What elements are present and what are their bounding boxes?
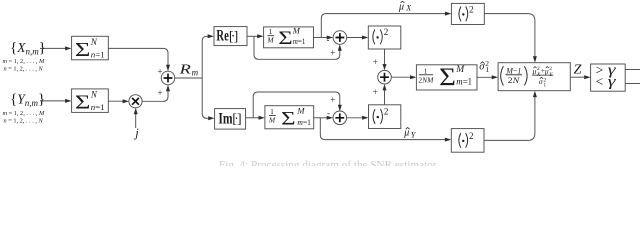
arrowhead into top-right square box xyxy=(445,12,451,16)
arrowhead into adder A2 left xyxy=(327,36,333,40)
box ratio xyxy=(498,63,570,91)
svg-text:Σ: Σ xyxy=(75,91,91,113)
adder A2 xyxy=(333,31,347,45)
arrowhead into top mean box xyxy=(257,34,263,38)
wire mu_X branch up and right xyxy=(321,14,447,38)
wire Re direct path to adder A2 xyxy=(254,36,340,59)
svg-text:m: m xyxy=(192,68,199,78)
svg-text:m=1: m=1 xyxy=(293,37,306,46)
multiplier M1 cross xyxy=(132,98,139,105)
arrowhead into threshold box xyxy=(584,75,590,79)
svg-text:n = 1, 2, . . . , N: n = 1, 2, . . . , N xyxy=(4,66,44,73)
box square bottom xyxy=(369,105,401,129)
svg-text:+: + xyxy=(330,47,335,57)
wire branch up to Re box xyxy=(202,36,209,78)
svg-text:+: + xyxy=(373,87,378,97)
wire Re box to mean box xyxy=(247,35,259,37)
box Re xyxy=(214,27,247,46)
svg-text:-: - xyxy=(327,35,330,45)
multiplier M1 xyxy=(129,95,142,108)
arrowhead into adder A3 bottom xyxy=(383,84,387,90)
box sum N bottom xyxy=(72,89,109,113)
svg-text:{Xn,m}: {Xn,m} xyxy=(10,40,46,57)
arrowhead into adder A4 top xyxy=(338,105,342,111)
arrowhead into Im box xyxy=(208,116,214,120)
svg-text:R: R xyxy=(178,62,191,77)
arrowhead into bottom sum box xyxy=(65,99,71,103)
svg-text:Σ: Σ xyxy=(439,64,456,91)
wire branch down to Im box xyxy=(202,78,210,118)
svg-text:m = 1, 2, . . . , M: m = 1, 2, . . . , M xyxy=(3,110,45,117)
wire X label to sum box xyxy=(40,47,67,49)
svg-text:+: + xyxy=(330,95,335,105)
svg-text:Z: Z xyxy=(574,62,582,77)
svg-text:{Yn,m}: {Yn,m} xyxy=(10,91,45,108)
square bottom content xyxy=(373,109,382,124)
arrowhead into top square box xyxy=(362,36,368,40)
svg-text:1: 1 xyxy=(424,66,428,75)
svg-text:+: + xyxy=(158,66,163,76)
adder A1 xyxy=(161,71,175,85)
box square bottom-right xyxy=(451,129,484,153)
svg-text:N: N xyxy=(90,37,98,47)
wire top square box down to adder A3 xyxy=(384,49,386,66)
adder A4 xyxy=(333,111,347,125)
svg-text:M: M xyxy=(292,25,301,35)
adder A4 plus xyxy=(335,113,344,122)
ratio box content xyxy=(501,66,504,85)
svg-text:X: X xyxy=(405,4,412,13)
wire top mean box to adder A2 xyxy=(314,37,329,39)
wire mu_Y^2 to ratio box bottom xyxy=(484,95,535,140)
svg-text:M: M xyxy=(455,65,465,75)
svg-text:2: 2 xyxy=(469,131,474,141)
svg-text:1: 1 xyxy=(486,65,490,74)
svg-text:n=1: n=1 xyxy=(91,102,105,112)
wire mu_Y branch down and right xyxy=(320,118,446,140)
box mean top xyxy=(264,27,314,48)
square top-right content xyxy=(459,7,468,22)
wire Y label to sum box xyxy=(40,100,67,102)
box threshold xyxy=(591,64,626,91)
svg-text:Σ: Σ xyxy=(75,39,91,61)
arrowhead into ratio box bottom xyxy=(533,91,537,97)
wire j input to multiplier xyxy=(135,112,137,128)
arrowhead into adder A2 bottom xyxy=(338,44,342,50)
svg-text:[·]: [·] xyxy=(229,29,238,44)
svg-text:Fig. 4: Processing diagram of: Fig. 4: Processing diagram of the SNR es… xyxy=(219,160,439,166)
arrowhead into Re box xyxy=(208,34,214,38)
svg-text:2: 2 xyxy=(384,107,389,117)
svg-text:n=1: n=1 xyxy=(91,49,105,59)
square bottom-right content xyxy=(459,133,468,148)
wire bottom mean box to adder A4 xyxy=(314,117,329,119)
wire threshold output lower xyxy=(625,83,640,85)
arrowhead into multiplier left xyxy=(123,99,129,103)
arrowhead into top sum box xyxy=(65,46,71,50)
svg-text:Σ: Σ xyxy=(281,108,295,129)
wire Im box to mean box xyxy=(246,117,261,119)
arrowhead into bottom-right square box xyxy=(445,138,451,142)
svg-text:j: j xyxy=(133,126,139,140)
svg-text:Im: Im xyxy=(218,111,232,128)
arrowhead into ratio box top xyxy=(533,56,537,62)
wire adder A2 to square box xyxy=(347,37,364,39)
svg-text:2: 2 xyxy=(469,5,474,15)
arrowhead into 1/2NM box xyxy=(410,75,416,79)
svg-text:Σ: Σ xyxy=(278,28,292,49)
svg-text:m=1: m=1 xyxy=(297,118,311,127)
svg-text:2N: 2N xyxy=(508,75,521,85)
svg-text:m = 1, 2, . . . , M: m = 1, 2, . . . , M xyxy=(3,58,45,65)
wire Im direct path to adder A4 xyxy=(253,92,340,118)
box Im xyxy=(215,109,246,130)
svg-text:n = 1, 2, . . . , N: n = 1, 2, . . . , N xyxy=(4,118,44,125)
svg-text:-: - xyxy=(327,108,330,118)
box 1/2NM sum xyxy=(416,65,477,90)
svg-text:Y: Y xyxy=(411,131,417,140)
svg-text:<: < xyxy=(596,74,604,89)
wire bottom sum box to multiplier xyxy=(108,100,124,102)
arrowhead into adder A1 top xyxy=(166,65,170,71)
arrowhead into adder A4 left xyxy=(327,116,333,120)
square top content xyxy=(373,30,382,45)
adder A3 plus xyxy=(380,73,389,82)
svg-text:Re: Re xyxy=(216,28,228,45)
wire ratio box to threshold box Z xyxy=(570,76,586,78)
wire multiplier to adder A1 (up corner) xyxy=(142,89,168,101)
arrowhead into bottom square box xyxy=(362,116,368,120)
box mean bottom xyxy=(265,106,314,129)
adder A3 xyxy=(378,70,392,84)
box square top-right xyxy=(451,3,484,24)
svg-text:+: + xyxy=(373,57,378,67)
svg-text:+: + xyxy=(158,88,163,98)
svg-text:γ: γ xyxy=(608,72,617,89)
adder A1 plus xyxy=(164,74,173,83)
wire adder A4 to square box xyxy=(347,117,364,119)
svg-text:M: M xyxy=(268,115,276,124)
svg-text:2: 2 xyxy=(384,27,389,37)
wire threshold output upper xyxy=(625,69,640,71)
box sum N top xyxy=(72,36,109,60)
arrowhead into bottom mean box xyxy=(259,116,265,120)
arrowhead into adder A1 bottom xyxy=(166,85,170,91)
wire adder A1 output R_m xyxy=(175,77,202,79)
svg-text:[·]: [·] xyxy=(232,112,241,127)
wire 1/2NM box to ratio box xyxy=(477,76,494,78)
wire top sum box to adder A1 (down corner) xyxy=(108,48,168,66)
wire mu_X^2 to ratio box top xyxy=(484,14,535,59)
svg-text:m=1: m=1 xyxy=(456,77,472,87)
box square top xyxy=(368,26,401,49)
svg-text:M: M xyxy=(266,36,274,45)
svg-text:2NM: 2NM xyxy=(418,75,434,84)
arrowhead j into multiplier bottom xyxy=(134,108,138,114)
wire bottom square box up to adder A3 xyxy=(384,89,386,105)
svg-text:M: M xyxy=(296,105,305,115)
svg-text:N: N xyxy=(90,90,98,100)
wire adder A3 to 1/2NM box xyxy=(391,76,411,78)
arrowhead into ratio box left xyxy=(492,75,498,79)
adder A2 plus xyxy=(336,33,345,42)
svg-text:1: 1 xyxy=(543,83,546,89)
arrowhead into adder A3 top xyxy=(383,64,387,70)
